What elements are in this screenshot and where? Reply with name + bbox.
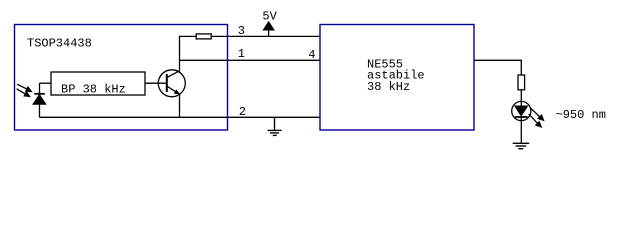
light arrows out of LED	[529, 108, 544, 127]
5V supply arrow	[264, 22, 274, 36]
photodiode D1	[33, 83, 46, 117]
output wire NE555 to resistor	[474, 60, 521, 75]
light arrows into photodiode	[17, 84, 32, 96]
ground symbol GND2	[513, 143, 530, 148]
svg-text:TSOP34438: TSOP34438	[27, 37, 92, 51]
wire LED to ground	[520, 121, 522, 144]
IC box U2 NE555	[320, 25, 474, 131]
svg-text:~950 nm: ~950 nm	[556, 108, 606, 122]
ground symbol GND1	[268, 117, 282, 135]
wire filter to transistor base	[145, 82, 167, 84]
wire photodiode to filter	[40, 82, 52, 84]
resistor R1	[196, 34, 211, 39]
svg-text:38 kHz: 38 kHz	[367, 80, 410, 94]
output wire pin 1 to pin 4	[180, 59, 321, 61]
IC box U1 TSOP34438	[15, 25, 228, 131]
transistor Q1	[158, 70, 185, 97]
collector wire	[179, 36, 181, 70]
svg-text:1: 1	[238, 47, 245, 61]
svg-text:BP 38 kHz: BP 38 kHz	[61, 83, 126, 97]
svg-text:5V: 5V	[262, 10, 277, 24]
svg-text:3: 3	[238, 24, 245, 38]
svg-text:4: 4	[308, 48, 315, 62]
resistor R2	[518, 75, 525, 90]
wire resistor to LED	[520, 90, 522, 102]
ground wire pin 2	[40, 116, 321, 118]
filter box BP 38 kHz	[51, 72, 145, 95]
wire 5V rail / pin 3	[179, 35, 320, 37]
LED D2	[512, 101, 531, 120]
svg-text:2: 2	[239, 105, 246, 119]
emitter wire	[179, 94, 181, 118]
